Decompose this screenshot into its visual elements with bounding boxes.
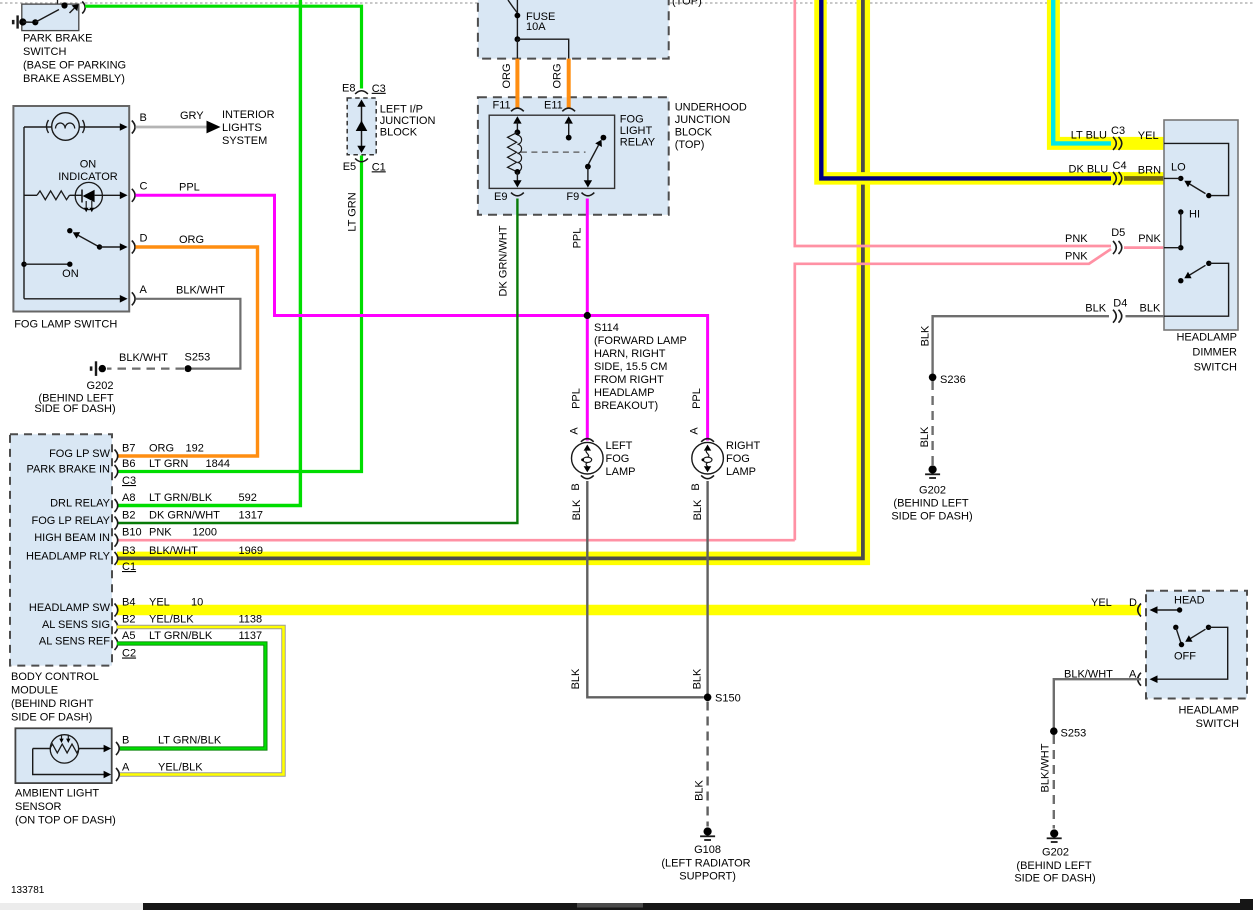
svg-text:BREAKOUT): BREAKOUT) <box>594 400 658 412</box>
svg-text:HEADLAMP SW: HEADLAMP SW <box>29 602 111 614</box>
svg-text:(BEHIND RIGHT: (BEHIND RIGHT <box>11 698 94 710</box>
svg-text:A8: A8 <box>122 492 135 504</box>
relay coil branch <box>513 116 521 123</box>
fog switch contact (D row) <box>67 228 72 233</box>
svg-text:JUNCTION: JUNCTION <box>675 114 731 126</box>
left fog lamp <box>572 442 604 474</box>
wire YEL/BLK (BCM B2 to ambient light sensor A) <box>117 627 284 775</box>
headlamp switch contacts <box>1173 625 1178 630</box>
svg-text:D: D <box>140 233 148 245</box>
wire GRY (to interior lights system) <box>136 126 208 129</box>
svg-text:LT BLU: LT BLU <box>1071 130 1107 142</box>
wire BLK/WHT dashed to G202 <box>1053 735 1055 829</box>
svg-text:ON: ON <box>62 268 79 280</box>
BCM pin B2 AL SENS SIG <box>115 621 118 634</box>
svg-text:1200: 1200 <box>193 527 217 539</box>
connector F9 <box>582 193 595 196</box>
wire BLK/WHT (headlamp switch A to S253) <box>1054 679 1141 727</box>
svg-text:PNK: PNK <box>1065 251 1088 263</box>
svg-text:BLK: BLK <box>919 325 931 346</box>
resistor (fog lamp switch) <box>24 194 37 196</box>
svg-text:HIGH BEAM IN: HIGH BEAM IN <box>34 532 110 544</box>
svg-text:YEL: YEL <box>1138 130 1159 142</box>
svg-text:GRY: GRY <box>180 110 204 122</box>
wire PNK (top edge to D5) <box>795 0 1111 246</box>
wire BLK (D4 to S236) <box>933 316 1109 373</box>
svg-text:FOG: FOG <box>606 453 630 465</box>
svg-text:ORG: ORG <box>501 63 513 88</box>
svg-text:1138: 1138 <box>239 614 263 626</box>
svg-text:A: A <box>689 427 701 435</box>
wire LT GRN (park brake switch to left I/P junction block) <box>85 6 362 88</box>
ground G202 (bottom right) <box>1050 829 1058 837</box>
svg-text:YEL: YEL <box>1091 597 1112 609</box>
ground G108 (left radiator support) <box>704 827 712 835</box>
svg-text:BLK: BLK <box>691 668 703 689</box>
svg-text:ON: ON <box>80 159 97 171</box>
wire BLK (right fog lamp to S150) <box>706 481 708 697</box>
splice S236 <box>929 374 937 382</box>
svg-text:SWITCH: SWITCH <box>1196 718 1239 730</box>
pin A row <box>24 298 120 300</box>
dimmer HI circuit <box>1178 209 1183 214</box>
wire BLK/WHT 1969 in YEL conduit (BCM B3 to top edge) <box>117 0 863 558</box>
svg-text:BLK/WHT: BLK/WHT <box>149 545 198 557</box>
wire ORG (fuse to relay E11) <box>567 59 571 108</box>
svg-text:BODY CONTROL: BODY CONTROL <box>11 671 99 683</box>
svg-text:C2: C2 <box>122 648 136 660</box>
splice S114 <box>584 312 591 319</box>
svg-text:LO: LO <box>1171 162 1186 174</box>
headlamp switch <box>1146 591 1247 699</box>
svg-text:D4: D4 <box>1113 298 1127 310</box>
svg-text:PNK: PNK <box>1138 233 1161 245</box>
headlamp switch ground path <box>1157 627 1228 679</box>
svg-text:DRL RELAY: DRL RELAY <box>50 498 111 510</box>
headlamp switch HEAD contact <box>1150 606 1158 614</box>
svg-text:DIMMER: DIMMER <box>1192 347 1237 359</box>
ambient light sensor <box>15 728 111 783</box>
svg-text:A: A <box>122 762 130 774</box>
BCM pin B6 PARK BRAKE IN <box>115 465 118 478</box>
svg-text:LIGHT: LIGHT <box>620 125 653 137</box>
svg-text:BLK: BLK <box>692 499 704 520</box>
svg-text:G202: G202 <box>1042 847 1069 859</box>
svg-text:B10: B10 <box>122 527 142 539</box>
connector E8/C3 <box>355 91 368 94</box>
BCM pin A8 DRL RELAY <box>115 499 118 512</box>
wire YEL 10 (BCM B4 to headlamp switch D) <box>117 605 1141 616</box>
svg-text:S253: S253 <box>1061 728 1087 740</box>
svg-text:BLK: BLK <box>571 499 583 520</box>
svg-text:E9: E9 <box>494 191 507 203</box>
svg-text:133781: 133781 <box>11 885 45 896</box>
svg-text:AL SENS REF: AL SENS REF <box>39 636 110 648</box>
svg-text:INDICATOR: INDICATOR <box>58 171 118 183</box>
svg-text:(ON TOP OF DASH): (ON TOP OF DASH) <box>15 815 116 827</box>
fuse 10A <box>508 0 517 13</box>
svg-text:E8: E8 <box>342 82 355 94</box>
svg-text:BLK: BLK <box>693 779 705 800</box>
svg-text:C: C <box>140 181 148 193</box>
svg-text:BLK: BLK <box>1085 303 1106 315</box>
svg-text:B: B <box>690 483 702 490</box>
svg-text:(TOP): (TOP) <box>675 139 705 151</box>
svg-text:BLK: BLK <box>1140 303 1161 315</box>
connector E11 <box>562 108 575 111</box>
svg-text:(TOP): (TOP) <box>672 0 702 8</box>
connector C4 (dimmer) <box>1113 172 1116 185</box>
svg-text:BLOCK: BLOCK <box>380 127 418 139</box>
svg-text:RIGHT: RIGHT <box>726 440 761 452</box>
svg-text:BLOCK: BLOCK <box>675 127 713 139</box>
svg-text:F9: F9 <box>566 191 579 203</box>
svg-text:AMBIENT LIGHT: AMBIENT LIGHT <box>15 788 99 800</box>
sensor pin B <box>104 745 112 752</box>
sensor pin A <box>116 768 119 781</box>
svg-text:10A: 10A <box>526 21 546 33</box>
svg-text:YEL/BLK: YEL/BLK <box>149 614 194 626</box>
wire LT GRN/BLK (BCM A5 to ambient light sensor B) <box>117 644 265 749</box>
wire ORG (fog lamp switch D to BCM B7) <box>117 247 258 456</box>
svg-text:LT GRN: LT GRN <box>149 458 188 470</box>
svg-text:PPL: PPL <box>571 228 583 249</box>
wire BRN (C4 to dimmer switch) <box>1124 176 1164 181</box>
connector D5 <box>1113 241 1116 254</box>
svg-text:HEAD: HEAD <box>1174 595 1205 607</box>
wire BLK dashed to G202 <box>931 381 933 465</box>
svg-text:LEFT I/P: LEFT I/P <box>380 104 423 116</box>
svg-text:SIDE, 15.5 CM: SIDE, 15.5 CM <box>594 361 667 373</box>
pin B <box>132 121 135 134</box>
wire LT GRN (junction block to BCM B6) <box>117 156 362 472</box>
svg-text:A: A <box>140 284 148 296</box>
connector E5/C1 <box>355 159 368 162</box>
fog light relay box <box>489 115 614 188</box>
svg-text:B2: B2 <box>122 614 135 626</box>
svg-text:YEL: YEL <box>149 597 170 609</box>
svg-text:UNDERHOOD: UNDERHOOD <box>675 102 747 114</box>
body control module <box>10 434 112 665</box>
svg-text:FOG LP SW: FOG LP SW <box>49 448 111 460</box>
svg-text:SUPPORT): SUPPORT) <box>679 871 736 883</box>
wire DK GRN/WHT (relay E9 to BCM B2) <box>117 199 517 524</box>
svg-text:C1: C1 <box>372 161 386 173</box>
svg-text:SIDE OF DASH): SIDE OF DASH) <box>891 511 972 523</box>
svg-text:1317: 1317 <box>239 510 263 522</box>
svg-text:HEADLAMP RLY: HEADLAMP RLY <box>26 550 111 562</box>
svg-text:D: D <box>1129 597 1137 609</box>
park brake switch contacts <box>23 21 36 23</box>
splice S253 <box>185 365 192 372</box>
svg-text:C4: C4 <box>1113 160 1127 172</box>
svg-text:S253: S253 <box>185 352 211 364</box>
svg-text:G108: G108 <box>694 844 721 856</box>
svg-text:BLK: BLK <box>570 668 582 689</box>
svg-text:B: B <box>140 112 147 124</box>
interior lights arrow <box>207 121 221 134</box>
svg-text:S114: S114 <box>594 322 619 334</box>
fog lamp switch internal bus <box>23 127 25 299</box>
left I/P junction block <box>347 98 376 155</box>
svg-text:C3: C3 <box>1111 125 1125 137</box>
connector D4 <box>1113 310 1116 323</box>
BCM pin B2 FOG LP RELAY <box>115 517 118 530</box>
svg-text:SIDE OF DASH): SIDE OF DASH) <box>34 403 115 415</box>
svg-text:1844: 1844 <box>206 458 230 470</box>
svg-text:ORG: ORG <box>149 443 174 455</box>
svg-text:D5: D5 <box>1111 227 1125 239</box>
svg-text:FOG LP RELAY: FOG LP RELAY <box>32 515 111 527</box>
BCM pin A5 AL SENS REF <box>115 637 118 650</box>
svg-text:B7: B7 <box>122 443 135 455</box>
connector E9 <box>511 193 524 196</box>
junction inside fuse box <box>515 36 521 42</box>
wire BLK (left fog lamp to S150) <box>587 481 704 697</box>
park brake switch ground <box>12 20 15 24</box>
connector B (left fog lamp) <box>581 475 594 478</box>
svg-text:B: B <box>570 483 582 490</box>
svg-text:HARN, RIGHT: HARN, RIGHT <box>594 348 666 360</box>
svg-text:AL SENS SIG: AL SENS SIG <box>42 619 110 631</box>
ground G202 (middle) <box>929 465 937 473</box>
diode (inside junction block) <box>361 104 363 149</box>
wire PPL (fog lamp switch C to S114 and fog lamps) <box>136 195 708 440</box>
svg-text:INTERIOR: INTERIOR <box>222 109 275 121</box>
svg-text:LAMP: LAMP <box>606 466 636 478</box>
fog lamp switch <box>13 106 129 312</box>
svg-text:LT GRN/BLK: LT GRN/BLK <box>158 735 222 747</box>
svg-text:(BEHIND LEFT: (BEHIND LEFT <box>1016 860 1091 872</box>
svg-text:LAMP: LAMP <box>726 466 756 478</box>
relay switch branch <box>565 116 573 123</box>
svg-text:10: 10 <box>191 597 203 609</box>
relay mechanical link <box>521 151 586 153</box>
svg-text:BLK/WHT: BLK/WHT <box>176 285 225 297</box>
svg-text:BLK: BLK <box>919 426 931 447</box>
BCM pin B3 HEADLAMP RLY <box>115 552 118 565</box>
svg-text:B3: B3 <box>122 545 135 557</box>
svg-text:C3: C3 <box>372 83 386 95</box>
svg-text:PPL: PPL <box>179 182 200 194</box>
right fog lamp <box>692 442 724 474</box>
ground G202 (behind left side of dash) <box>90 366 93 370</box>
svg-text:FOG LAMP SWITCH: FOG LAMP SWITCH <box>14 319 117 331</box>
BCM pin B7 FOG LP SW <box>115 450 118 463</box>
photoresistor <box>50 735 78 763</box>
wire ORG (fuse to relay F11) <box>515 59 519 108</box>
svg-text:LIGHTS: LIGHTS <box>222 122 262 134</box>
wire PPL (relay F9 to S114) <box>586 199 589 316</box>
connector B (right fog lamp) <box>701 475 714 478</box>
illumination lamp (B row) <box>24 126 51 128</box>
underhood junction block (top) <box>478 97 669 215</box>
svg-text:(BASE OF PARKING: (BASE OF PARKING <box>23 60 126 72</box>
svg-text:PARK BRAKE IN: PARK BRAKE IN <box>26 464 110 476</box>
svg-text:S236: S236 <box>940 374 966 386</box>
svg-text:RELAY: RELAY <box>620 137 656 149</box>
park brake switch <box>22 4 79 31</box>
wire DK BLU in YEL conduit (top edge to C4) <box>821 0 1165 178</box>
svg-text:BLK/WHT: BLK/WHT <box>119 352 168 364</box>
svg-text:DK BLU: DK BLU <box>1069 164 1109 176</box>
pin C <box>132 189 135 202</box>
splice S150 <box>704 694 712 702</box>
svg-text:SWITCH: SWITCH <box>1194 362 1237 374</box>
svg-text:F11: F11 <box>493 100 511 112</box>
wire PNK (D5 to headlamp dimmer switch) <box>1124 246 1164 249</box>
svg-text:JUNCTION: JUNCTION <box>380 115 436 127</box>
wire BLK (dimmer to D4) <box>1126 315 1165 317</box>
svg-text:1969: 1969 <box>239 545 263 557</box>
cut-off dashed box edge (top) <box>0 2 1253 4</box>
svg-text:A: A <box>568 427 580 435</box>
svg-text:ORG: ORG <box>179 234 204 246</box>
svg-text:SIDE OF DASH): SIDE OF DASH) <box>1014 873 1095 885</box>
svg-text:SENSOR: SENSOR <box>15 801 62 813</box>
svg-text:LT GRN/BLK: LT GRN/BLK <box>149 630 213 642</box>
svg-text:BRAKE ASSEMBLY): BRAKE ASSEMBLY) <box>23 73 125 85</box>
svg-text:G202: G202 <box>87 380 114 392</box>
pin D <box>132 241 135 254</box>
svg-text:DK GRN/WHT: DK GRN/WHT <box>497 225 509 296</box>
splice S253 (right) <box>1050 727 1058 735</box>
svg-text:PPL: PPL <box>691 388 703 409</box>
relay coil <box>508 132 518 172</box>
svg-text:G202: G202 <box>919 485 946 497</box>
svg-text:HEADLAMP: HEADLAMP <box>594 387 655 399</box>
svg-text:FROM RIGHT: FROM RIGHT <box>594 374 664 386</box>
svg-text:LT GRN/BLK: LT GRN/BLK <box>149 492 213 504</box>
svg-text:SIDE OF DASH): SIDE OF DASH) <box>11 712 92 724</box>
svg-text:FOG: FOG <box>726 453 750 465</box>
svg-text:192: 192 <box>186 443 204 455</box>
svg-text:PARK BRAKE: PARK BRAKE <box>23 33 93 45</box>
bottom scrollbar <box>0 903 1253 910</box>
svg-text:S150: S150 <box>715 693 741 705</box>
svg-text:B6: B6 <box>122 458 135 470</box>
svg-text:E11: E11 <box>544 100 563 112</box>
BCM pin B4 HEADLAMP SW <box>115 604 118 617</box>
connector A (headlamp switch) <box>1138 673 1141 686</box>
wire BLK dashed to G108 <box>706 702 708 827</box>
svg-text:C1: C1 <box>122 561 136 573</box>
ON contact <box>21 262 26 267</box>
svg-text:SWITCH: SWITCH <box>23 46 66 58</box>
svg-text:E5: E5 <box>343 161 356 173</box>
svg-text:592: 592 <box>239 492 257 504</box>
wire BLK/WHT dashed to G202 <box>107 368 184 370</box>
sensor A loop <box>33 749 105 775</box>
connector F11 <box>511 108 524 111</box>
svg-text:B4: B4 <box>122 597 135 609</box>
dimmer LO circuit <box>1164 143 1229 195</box>
svg-text:HI: HI <box>1189 209 1200 221</box>
park brake switch exit arrow <box>70 7 77 14</box>
dimmer ground circuit <box>1206 261 1211 266</box>
BCM pin B10 HIGH BEAM IN <box>115 534 118 547</box>
svg-text:LT GRN: LT GRN <box>346 192 358 231</box>
svg-text:(LEFT RADIATOR: (LEFT RADIATOR <box>661 858 750 870</box>
svg-text:PNK: PNK <box>149 527 172 539</box>
svg-text:HEADLAMP: HEADLAMP <box>1178 705 1239 717</box>
svg-text:BLK/WHT: BLK/WHT <box>1039 743 1051 792</box>
wire PNK (BCM B10 to D5) <box>117 539 795 542</box>
wire LT BLU in YEL conduit (top edge to C3) <box>1053 0 1164 143</box>
connector C3 (dimmer) <box>1113 137 1116 150</box>
headlamp dimmer switch <box>1164 120 1238 330</box>
svg-text:1137: 1137 <box>239 630 263 642</box>
svg-text:(FORWARD LAMP: (FORWARD LAMP <box>594 335 687 347</box>
svg-text:PNK: PNK <box>1065 233 1088 245</box>
svg-text:PPL: PPL <box>570 388 582 409</box>
svg-text:ORG: ORG <box>551 63 563 88</box>
svg-text:MODULE: MODULE <box>11 685 58 697</box>
wire BLK/WHT (fog lamp switch A to S253) <box>136 299 241 369</box>
wire LT GRN/BLK (top edge to BCM A8 DRL RELAY) <box>117 0 300 506</box>
svg-text:SYSTEM: SYSTEM <box>222 135 267 147</box>
svg-text:BRN: BRN <box>1138 165 1161 177</box>
svg-text:(BEHIND LEFT: (BEHIND LEFT <box>893 498 968 510</box>
svg-text:C3: C3 <box>122 475 136 487</box>
svg-text:HEADLAMP: HEADLAMP <box>1176 332 1237 344</box>
svg-text:LEFT: LEFT <box>606 440 633 452</box>
LED ON indicator <box>75 182 102 209</box>
svg-text:B: B <box>122 735 129 747</box>
svg-text:A5: A5 <box>122 630 135 642</box>
underhood junction block fuse section (cut off) <box>478 0 669 59</box>
svg-text:OFF: OFF <box>1174 651 1196 663</box>
svg-text:FOG: FOG <box>620 114 644 126</box>
svg-text:B2: B2 <box>122 510 135 522</box>
svg-text:YEL/BLK: YEL/BLK <box>158 762 203 774</box>
svg-text:DK GRN/WHT: DK GRN/WHT <box>149 510 220 522</box>
